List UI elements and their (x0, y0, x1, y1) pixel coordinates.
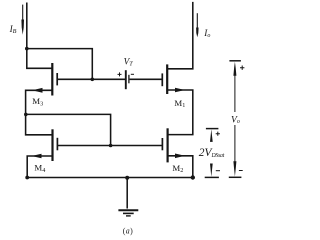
svg-text:M1: M1 (174, 98, 185, 109)
svg-text:2VDSsat: 2VDSsat (199, 147, 225, 159)
svg-text:IB: IB (9, 24, 17, 35)
svg-text:M4: M4 (34, 163, 45, 174)
svg-text:VT: VT (124, 57, 134, 68)
svg-text:M3: M3 (32, 96, 43, 107)
svg-text:(a): (a) (123, 227, 134, 236)
svg-text:Io: Io (203, 28, 210, 39)
svg-text:M2: M2 (172, 163, 183, 174)
svg-text:Vo: Vo (231, 114, 240, 125)
